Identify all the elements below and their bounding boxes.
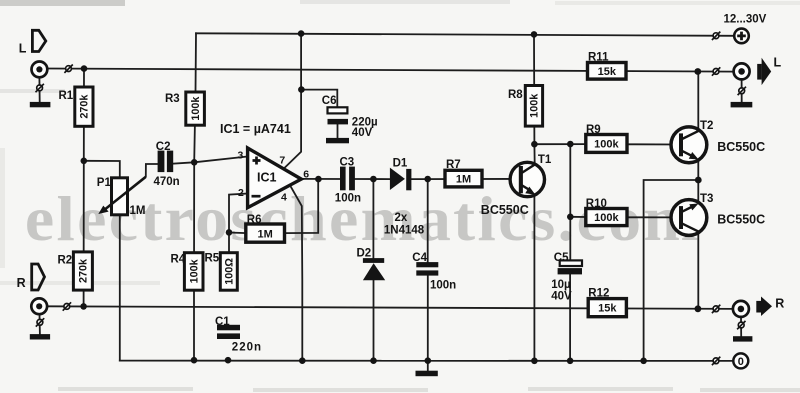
svg-text:2x: 2x (395, 212, 408, 224)
svg-text:15k: 15k (598, 303, 617, 315)
plug symbol on L input line (64, 65, 72, 73)
wire P1 bottom to ground rail (119, 215, 121, 361)
transistor T2 circle (671, 127, 707, 163)
wire C3 to D1 (355, 178, 391, 180)
wire R3/R4 vertical from supply rail to ground rail (194, 33, 196, 360)
svg-text:R: R (17, 276, 26, 290)
transistor T1 circle (510, 162, 544, 196)
R input RCA jack (31, 298, 47, 314)
op-amp minus sign (252, 195, 261, 198)
svg-text:270k: 270k (78, 94, 90, 119)
resistor R5 (220, 253, 237, 291)
node ground rail / D2 (370, 357, 377, 364)
wire R1/R2 vertical (83, 69, 85, 307)
svg-text:100k: 100k (188, 258, 200, 283)
ground L output (731, 102, 753, 108)
plug symbol on L input ground stub (36, 84, 44, 92)
svg-text:C6: C6 (322, 95, 337, 107)
wire pin 4 lead down to ground rail (290, 186, 302, 361)
op-amp plus sign (253, 157, 261, 165)
potentiometer P1 wiper arrowhead (98, 206, 108, 214)
potentiometer P1 wiper arrow line (104, 177, 146, 211)
L input RCA jack center pin (36, 66, 42, 72)
wire R input jack ground stub (39, 314, 41, 334)
wire T2 emitter to node (697, 159, 699, 180)
plug symbol on R output ground stub (737, 321, 745, 329)
svg-text:100n: 100n (335, 193, 361, 205)
wire R8 vertical and T1 collector (533, 34, 536, 164)
L output arrow bar (757, 64, 761, 80)
resistor R3 (186, 92, 205, 125)
svg-text:C1: C1 (215, 316, 230, 328)
wire ground rail (120, 360, 734, 362)
svg-text:100k: 100k (594, 212, 619, 224)
wire node to R10 (570, 216, 586, 218)
wire output pin 6 to C3 (301, 178, 340, 180)
svg-text:40V: 40V (352, 127, 373, 139)
svg-text:100k: 100k (190, 96, 202, 121)
wire pin 7 lead to supply rail (285, 34, 301, 168)
node ground rail / pin4 (299, 357, 306, 364)
wire R10 to T3 base (627, 216, 680, 218)
capacitor C1 plate bottom (217, 333, 240, 339)
node L line / R1 (81, 65, 88, 72)
L output arrow head (762, 58, 772, 85)
wire R6 node to R5 handled above; R6 left lead (229, 232, 246, 235)
svg-text:470n: 470n (154, 176, 180, 188)
svg-text:D1: D1 (393, 158, 408, 170)
capacitor C3 plate right (349, 167, 355, 191)
svg-text:IC1: IC1 (257, 171, 277, 185)
svg-text:L: L (774, 56, 782, 70)
wire L input line (48, 69, 734, 72)
svg-text:L: L (19, 42, 27, 56)
scan noise bottom bands (58, 387, 800, 392)
node output pin6 / R6 (315, 176, 322, 183)
svg-text:BC550C: BC550C (481, 203, 529, 217)
diode D2 cathode bar (363, 258, 384, 263)
scan noise top band 2 (300, 0, 510, 4)
wire pin 2 to R6 node (229, 194, 247, 253)
svg-text:7: 7 (279, 154, 285, 166)
svg-text:270k: 270k (78, 258, 90, 283)
resistor R6 (246, 224, 285, 242)
transistor T1 collector diagonal (522, 165, 535, 173)
resistor R11 (588, 63, 627, 80)
svg-text:12...30V: 12...30V (724, 14, 767, 26)
supply terminal plus (734, 29, 749, 44)
transistor T3 emitter arrowhead (689, 204, 698, 211)
svg-text:BC550C: BC550C (717, 140, 765, 154)
svg-text:1N4148: 1N4148 (384, 225, 425, 237)
svg-text:D2: D2 (357, 248, 372, 260)
node ground rail / C4 ground (425, 357, 432, 364)
wire C4 top lead (427, 179, 429, 262)
plug symbol on ground rail (712, 357, 720, 365)
diode D1 triangle (390, 168, 405, 190)
resistor R7 (445, 170, 482, 187)
svg-text:100Ω: 100Ω (224, 258, 236, 285)
node R9 line / C5 branch (567, 141, 574, 148)
wire top supply rail (196, 33, 734, 36)
diode D2 triangle (363, 263, 385, 280)
svg-text:100k: 100k (528, 93, 540, 118)
capacitor C6 plate top (positive, hollow) (328, 107, 348, 113)
diode D1 cathode bar (406, 169, 411, 190)
R output arrow bar (756, 301, 761, 313)
transistor T1 emitter diagonal (522, 185, 532, 191)
ground R input (30, 334, 50, 339)
svg-text:C3: C3 (340, 157, 355, 169)
wire C2 to pin 3 (173, 157, 247, 164)
wire T1 collector node to R9 (534, 143, 586, 145)
svg-text:4: 4 (281, 192, 287, 204)
wire L output jack ground stub (741, 79, 743, 102)
svg-text:R5: R5 (205, 253, 220, 265)
svg-text:R8: R8 (508, 89, 523, 101)
svg-text:R10: R10 (586, 198, 607, 210)
resistor R2 (73, 252, 92, 290)
node R10 / C5 branch (567, 214, 574, 221)
node supply rail / pin7-C6 branch (298, 30, 305, 37)
wire P1 wiper to C2 (146, 164, 158, 176)
plug symbol on R input ground stub (36, 318, 44, 326)
node ground rail / C5 (567, 358, 574, 365)
transistor T2 collector diagonal (682, 131, 698, 139)
transistor T3 collector diagonal (682, 224, 698, 232)
svg-text:P1: P1 (97, 177, 112, 189)
scan noise streak left mid (0, 89, 65, 93)
node mix point R1/R2/P1 (81, 158, 88, 165)
node C6 branch (298, 86, 305, 93)
ground R output (733, 336, 752, 341)
svg-text:C5: C5 (554, 252, 569, 264)
node R line / T3 emitter (695, 305, 702, 312)
node output / D2 (370, 176, 377, 183)
svg-text:T3: T3 (700, 193, 713, 205)
R input RCA jack center pin (36, 303, 42, 309)
node R line / R2 (80, 303, 87, 310)
wire L input jack ground stub (38, 78, 40, 103)
svg-text:1M: 1M (258, 229, 273, 241)
L output RCA jack (734, 63, 750, 79)
wire R9 to T2 base (627, 143, 680, 145)
zero volt terminal (733, 353, 748, 368)
wire main ground stub (427, 361, 429, 371)
scan noise top band (0, 0, 125, 6)
wire T3 collector to node (697, 180, 699, 204)
capacitor C2 plate left (158, 151, 165, 173)
wire D2 bottom lead (373, 280, 375, 361)
transistor T1 base bar (519, 166, 523, 193)
svg-text:R1: R1 (59, 90, 74, 102)
svg-text:220n: 220n (232, 341, 262, 353)
wire C6 branch (301, 90, 337, 108)
R output RCA jack (733, 301, 749, 317)
svg-text:BC550C: BC550C (717, 213, 765, 227)
capacitor C4 plate top (416, 262, 438, 267)
resistor R4 (184, 253, 203, 291)
ground main below rail (416, 371, 438, 377)
node pin2 / R6 / R5 (226, 229, 233, 236)
resistor R9 (586, 135, 627, 153)
wire R output jack ground stub (740, 317, 742, 337)
node ground rail / R4 (191, 357, 198, 364)
resistor R12 (588, 299, 626, 317)
capacitor C1 plate top (217, 325, 240, 331)
capacitor C2 plate right (167, 151, 173, 173)
capacitor C3 plate left (340, 167, 346, 191)
L input arrow symbol (32, 30, 45, 51)
transistor T2 emitter diagonal (682, 151, 691, 156)
transistor T3 circle (671, 200, 707, 236)
wire T2 collector up to L line (697, 72, 699, 131)
ground bar below C6 (326, 138, 349, 143)
svg-text:R4: R4 (171, 254, 186, 266)
svg-text:100k: 100k (594, 139, 619, 151)
svg-text:1M: 1M (130, 205, 146, 217)
svg-text:40V: 40V (551, 291, 572, 303)
R input arrow symbol (32, 264, 45, 290)
transistor T2 emitter arrowhead (689, 152, 699, 160)
svg-text:IC1 = µA741: IC1 = µA741 (220, 122, 291, 136)
node L line / T2 collector (694, 68, 701, 75)
svg-text:R2: R2 (58, 255, 73, 267)
wire T3 emitter down to R line (697, 232, 699, 309)
op-amp IC1 triangle (248, 148, 302, 208)
svg-text:R3: R3 (165, 93, 180, 105)
plug symbol on L output line (712, 67, 720, 75)
wire R6 right lead up to output (284, 179, 318, 233)
transistor T1 emitter arrowhead (525, 187, 535, 195)
ground L input (30, 102, 51, 107)
svg-text:10µ: 10µ (551, 279, 570, 291)
node supply rail / R8 (531, 31, 538, 38)
plug symbol on R output line (712, 305, 720, 313)
potentiometer P1 box (112, 178, 128, 215)
plug symbol on supply rail (712, 32, 720, 40)
L output RCA jack center pin (738, 68, 745, 75)
L input RCA jack (32, 62, 48, 78)
transistor T3 emitter diagonal (arrow up toward common node) (682, 207, 692, 212)
resistor R10 (586, 209, 627, 226)
svg-text:C2: C2 (156, 141, 171, 153)
node ground rail / T1 emitter (531, 358, 538, 365)
scan noise streak left lower (0, 281, 160, 285)
scan noise left edge (0, 148, 5, 268)
svg-text:T2: T2 (700, 120, 713, 132)
svg-text:100n: 100n (430, 280, 456, 292)
wire C5 bottom to ground rail (569, 274, 571, 360)
svg-text:1M: 1M (456, 174, 471, 186)
wire C6 bottom lead (337, 124, 339, 138)
node T1 collector / R8 / R9 (531, 141, 538, 148)
svg-text:R6: R6 (247, 214, 262, 226)
wire T1 emitter down to ground rail (533, 195, 535, 361)
wire R9 node down to C5 (569, 144, 571, 261)
svg-text:15k: 15k (598, 66, 617, 78)
R output arrow head (761, 297, 772, 317)
svg-text:R11: R11 (588, 51, 609, 63)
scan noise top band 3 (555, 1, 800, 5)
wire D2 top lead (372, 179, 374, 258)
node output / C4 (424, 176, 431, 183)
svg-text:3: 3 (238, 149, 244, 161)
capacitor C5 plate top (positive, hollow) (560, 260, 582, 266)
svg-text:R12: R12 (588, 287, 609, 299)
plug symbol on R input line (63, 302, 71, 310)
transistor T2 base bar (679, 133, 683, 156)
svg-text:6: 6 (303, 168, 309, 180)
node pin3 bias divider (191, 159, 198, 166)
wire C4 bottom lead (427, 275, 429, 360)
wire shunt node to ground rail (644, 180, 699, 361)
svg-text:C4: C4 (412, 252, 427, 264)
wire R channel line (46, 306, 733, 309)
node T2 emitter / T3 collector (695, 177, 702, 184)
svg-text:2: 2 (238, 187, 244, 199)
svg-text:R7: R7 (446, 159, 461, 171)
wire D1 to R7 to T1 base (411, 178, 518, 180)
capacitor C5 plate bottom (filled) (558, 268, 582, 274)
svg-text:R: R (775, 297, 784, 311)
plug symbol on L output ground stub (738, 87, 746, 95)
node ground rail / shunt wire (640, 358, 647, 365)
wire mix node to P1 top (84, 161, 120, 178)
capacitor C4 plate bottom (416, 270, 438, 275)
capacitor C6 plate bottom (filled) (328, 119, 349, 125)
resistor R8 (525, 86, 542, 127)
svg-text:T1: T1 (538, 154, 552, 166)
node ground rail / C1 (225, 357, 232, 364)
svg-text:R9: R9 (586, 124, 601, 136)
transistor T3 base bar (679, 206, 683, 229)
R output RCA jack center pin (738, 306, 745, 313)
resistor R1 (75, 87, 93, 126)
svg-text:0: 0 (738, 356, 744, 368)
